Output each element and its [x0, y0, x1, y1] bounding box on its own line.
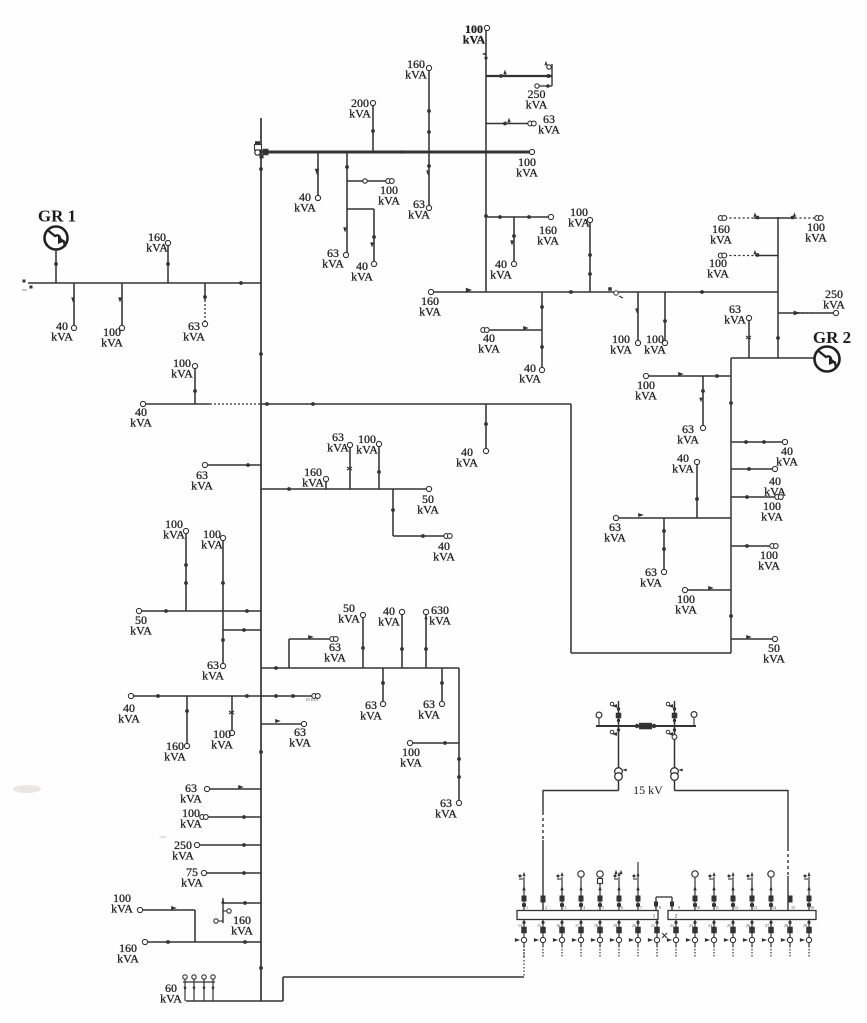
- svg-text:9: 9: [678, 905, 680, 910]
- svg-text:kVA: kVA: [433, 550, 455, 564]
- svg-text:kVA: kVA: [302, 476, 324, 490]
- svg-text:12: 12: [734, 905, 738, 910]
- svg-text:11: 11: [715, 905, 719, 910]
- svg-text:16: 16: [810, 905, 814, 910]
- svg-text:2: 2: [545, 905, 547, 910]
- svg-text:23: 23: [689, 923, 693, 928]
- svg-text:kVA: kVA: [516, 166, 538, 180]
- svg-text:27: 27: [765, 923, 769, 928]
- svg-text:kVA: kVA: [118, 712, 140, 726]
- svg-text:kVA: kVA: [180, 792, 202, 806]
- svg-text:kVA: kVA: [763, 652, 785, 666]
- svg-text:22: 22: [670, 923, 674, 928]
- svg-text:kVA: kVA: [418, 708, 440, 722]
- svg-text:15: 15: [537, 923, 541, 928]
- svg-text:kVA: kVA: [400, 756, 422, 770]
- svg-text:kVA: kVA: [675, 603, 697, 617]
- svg-text:kVA: kVA: [478, 342, 500, 356]
- svg-text:kVA: kVA: [130, 416, 152, 430]
- svg-text:kVA: kVA: [289, 736, 311, 750]
- svg-text:kVA: kVA: [758, 559, 780, 573]
- svg-text:kVA: kVA: [408, 208, 430, 222]
- svg-text:kVA: kVA: [538, 123, 560, 137]
- svg-text:kVA: kVA: [526, 98, 548, 112]
- svg-text:kVA: kVA: [172, 849, 194, 863]
- svg-text:kVA: kVA: [378, 194, 400, 208]
- svg-text:kVA: kVA: [761, 510, 783, 524]
- svg-text:kVA: kVA: [324, 651, 346, 665]
- svg-text:kVA: kVA: [51, 330, 73, 344]
- svg-text:kVA: kVA: [180, 817, 202, 831]
- svg-text:kVA: kVA: [456, 456, 478, 470]
- svg-text:10: 10: [696, 905, 700, 910]
- svg-text:kVA: kVA: [146, 241, 168, 255]
- svg-text:kVA: kVA: [724, 313, 746, 327]
- svg-text:kVA: kVA: [322, 257, 344, 271]
- svg-text:5: 5: [602, 905, 604, 910]
- svg-text:kVA: kVA: [419, 305, 441, 319]
- svg-text:kVA: kVA: [604, 531, 626, 545]
- svg-text:16: 16: [556, 923, 560, 928]
- svg-text:kVA: kVA: [338, 612, 360, 626]
- svg-text:28: 28: [784, 923, 788, 928]
- svg-text:kVA: kVA: [349, 107, 371, 121]
- svg-text:kVA: kVA: [160, 992, 182, 1006]
- svg-text:kVA: kVA: [117, 952, 139, 966]
- svg-text:kVA: kVA: [635, 389, 657, 403]
- svg-text:13: 13: [753, 905, 757, 910]
- svg-text:kVA: kVA: [211, 738, 233, 752]
- svg-text:kVA: kVA: [360, 709, 382, 723]
- svg-text:kVA: kVA: [405, 68, 427, 82]
- svg-text:63 kVA: 63 kVA: [306, 697, 318, 702]
- svg-text:kVA: kVA: [231, 924, 253, 938]
- svg-text:17: 17: [575, 923, 579, 928]
- svg-text:kVA: kVA: [327, 441, 349, 455]
- svg-text:4: 4: [583, 905, 585, 910]
- svg-text:100: 100: [21, 288, 27, 292]
- svg-text:kVA: kVA: [202, 669, 224, 683]
- svg-text:kVA: kVA: [201, 538, 223, 552]
- svg-text:kVA: kVA: [490, 268, 512, 282]
- svg-text:GR 2: GR 2: [813, 328, 851, 347]
- svg-text:21: 21: [651, 923, 655, 928]
- svg-text:kVA: kVA: [677, 433, 699, 447]
- svg-text:kVA: kVA: [435, 807, 457, 821]
- svg-text:14: 14: [518, 923, 522, 928]
- svg-text:kVA: kVA: [610, 343, 632, 357]
- svg-text:kVA: kVA: [823, 298, 845, 312]
- svg-text:kVA: kVA: [351, 270, 373, 284]
- svg-text:kVA: kVA: [537, 234, 559, 248]
- svg-text:kVA: kVA: [710, 233, 732, 247]
- svg-text:kVA: kVA: [191, 479, 213, 493]
- svg-text:kVA: kVA: [672, 462, 694, 476]
- svg-text:25: 25: [727, 923, 731, 928]
- svg-text:14: 14: [772, 905, 776, 910]
- svg-text:kVA: kVA: [181, 876, 203, 890]
- svg-text:kVA: kVA: [417, 503, 439, 517]
- svg-text:7: 7: [640, 905, 642, 910]
- svg-text:kVA: kVA: [111, 902, 133, 916]
- svg-text:kVA: kVA: [294, 201, 316, 215]
- svg-text:kVA: kVA: [163, 528, 185, 542]
- svg-text:kVA: kVA: [707, 267, 729, 281]
- svg-text:kVA: kVA: [130, 624, 152, 638]
- svg-text:8: 8: [659, 905, 661, 910]
- svg-text:kVA: kVA: [183, 330, 205, 344]
- svg-text:20: 20: [632, 923, 636, 928]
- svg-text:kVA: kVA: [164, 750, 186, 764]
- svg-text:kVA: kVA: [429, 614, 451, 628]
- svg-text:kVA: kVA: [171, 367, 193, 381]
- svg-text:26: 26: [746, 923, 750, 928]
- svg-text:24: 24: [708, 923, 712, 928]
- svg-text:6: 6: [621, 905, 623, 910]
- svg-text:kVA: kVA: [519, 372, 541, 386]
- svg-text:GR 1: GR 1: [38, 207, 76, 226]
- svg-text:kVA: kVA: [463, 33, 486, 47]
- svg-text:15: 15: [791, 905, 795, 910]
- svg-text:29: 29: [803, 923, 807, 928]
- svg-text:kVA: kVA: [805, 231, 827, 245]
- svg-text:kVA: kVA: [644, 343, 666, 357]
- svg-text:18: 18: [594, 923, 598, 928]
- svg-text:kVA: kVA: [101, 336, 123, 350]
- svg-text:kVA: kVA: [378, 615, 400, 629]
- svg-text:kVA: kVA: [640, 576, 662, 590]
- svg-text:kVA: kVA: [356, 443, 378, 457]
- svg-text:1: 1: [526, 905, 528, 910]
- svg-text:kVA: kVA: [568, 216, 590, 230]
- svg-text:3: 3: [564, 905, 566, 910]
- svg-text:kVA: kVA: [776, 455, 798, 469]
- svg-text:19: 19: [613, 923, 617, 928]
- svg-text:15 kV: 15 kV: [633, 783, 663, 797]
